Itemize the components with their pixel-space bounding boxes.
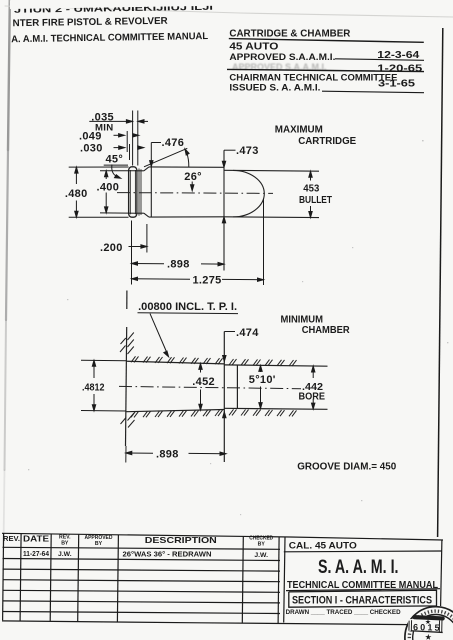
svg-text:GROOVE DIAM.= 450: GROOVE DIAM.= 450: [297, 461, 396, 473]
svg-text:BY: BY: [258, 542, 266, 548]
svg-text:DRAWN ____ TRACED ____ CHEC: DRAWN ____ TRACED ____ CHECKED: [286, 610, 402, 616]
svg-text:.473: .473: [236, 145, 259, 157]
svg-text:CARTRIDGE: CARTRIDGE: [298, 136, 356, 147]
svg-text:26°WAS 36° - REDRAWN: 26°WAS 36° - REDRAWN: [123, 550, 212, 558]
svg-text:45°: 45°: [106, 153, 124, 165]
svg-text:★: ★: [425, 619, 431, 626]
svg-text:.030: .030: [80, 143, 103, 155]
svg-text:DATE: DATE: [23, 534, 50, 543]
svg-text:CAL. 45 AUTO: CAL. 45 AUTO: [289, 541, 358, 552]
svg-text:J.W.: J.W.: [254, 552, 268, 559]
svg-text:.00800 INCL. T. P. I.: .00800 INCL. T. P. I.: [138, 301, 237, 313]
svg-text:S. A. A. M. I.: S. A. A. M. I.: [318, 557, 399, 578]
svg-text:BY: BY: [61, 541, 69, 547]
svg-text:SECTION I - CHARACTERISTICS: SECTION I - CHARACTERISTICS: [292, 595, 432, 607]
svg-text:MAXIMUM: MAXIMUM: [275, 124, 323, 135]
svg-text:.480: .480: [65, 188, 88, 200]
svg-text:26°: 26°: [184, 171, 202, 183]
svg-text:11-27-64: 11-27-64: [23, 551, 49, 558]
svg-text:.049: .049: [79, 131, 102, 143]
svg-text:3-1-65: 3-1-65: [378, 78, 416, 89]
svg-text:BY: BY: [95, 541, 103, 547]
svg-text:.474: .474: [236, 327, 259, 339]
svg-text:TECHNICAL COMMITTEE MANUAL: TECHNICAL COMMITTEE MANUAL: [287, 580, 438, 591]
svg-text:BULLET: BULLET: [299, 194, 332, 206]
svg-text:12-3-64: 12-3-64: [377, 50, 419, 61]
svg-text:REV.: REV.: [3, 534, 20, 543]
svg-text:1.275: 1.275: [193, 274, 222, 286]
svg-text:.898: .898: [156, 449, 179, 461]
svg-text:.200: .200: [100, 242, 123, 254]
svg-text:5°10': 5°10': [249, 374, 276, 386]
svg-text:MINIMUM: MINIMUM: [281, 314, 324, 325]
svg-text:.898: .898: [167, 259, 190, 271]
svg-text:.4812: .4812: [82, 381, 105, 393]
svg-text:★: ★: [425, 633, 432, 640]
svg-text:.476: .476: [162, 137, 185, 149]
svg-text:APPROVED S.A.A.M.I.: APPROVED S.A.A.M.I.: [232, 62, 327, 72]
svg-text:CARTRIDGE & CHAMBER: CARTRIDGE & CHAMBER: [229, 28, 351, 39]
svg-text:453: 453: [303, 182, 319, 194]
svg-text:BORE: BORE: [299, 392, 326, 403]
svg-text:.452: .452: [192, 376, 215, 388]
svg-text:J.W.: J.W.: [58, 551, 72, 558]
svg-text:CHAMBER: CHAMBER: [302, 325, 351, 336]
svg-text:ISSUED S. A. A.M.I.: ISSUED S. A. A.M.I.: [229, 83, 320, 94]
svg-text:CHAIRMAN TECHNICAL COMMITTEE: CHAIRMAN TECHNICAL COMMITTEE: [229, 72, 397, 83]
svg-text:.400: .400: [97, 182, 120, 194]
svg-text:DESCRIPTION: DESCRIPTION: [145, 535, 217, 545]
